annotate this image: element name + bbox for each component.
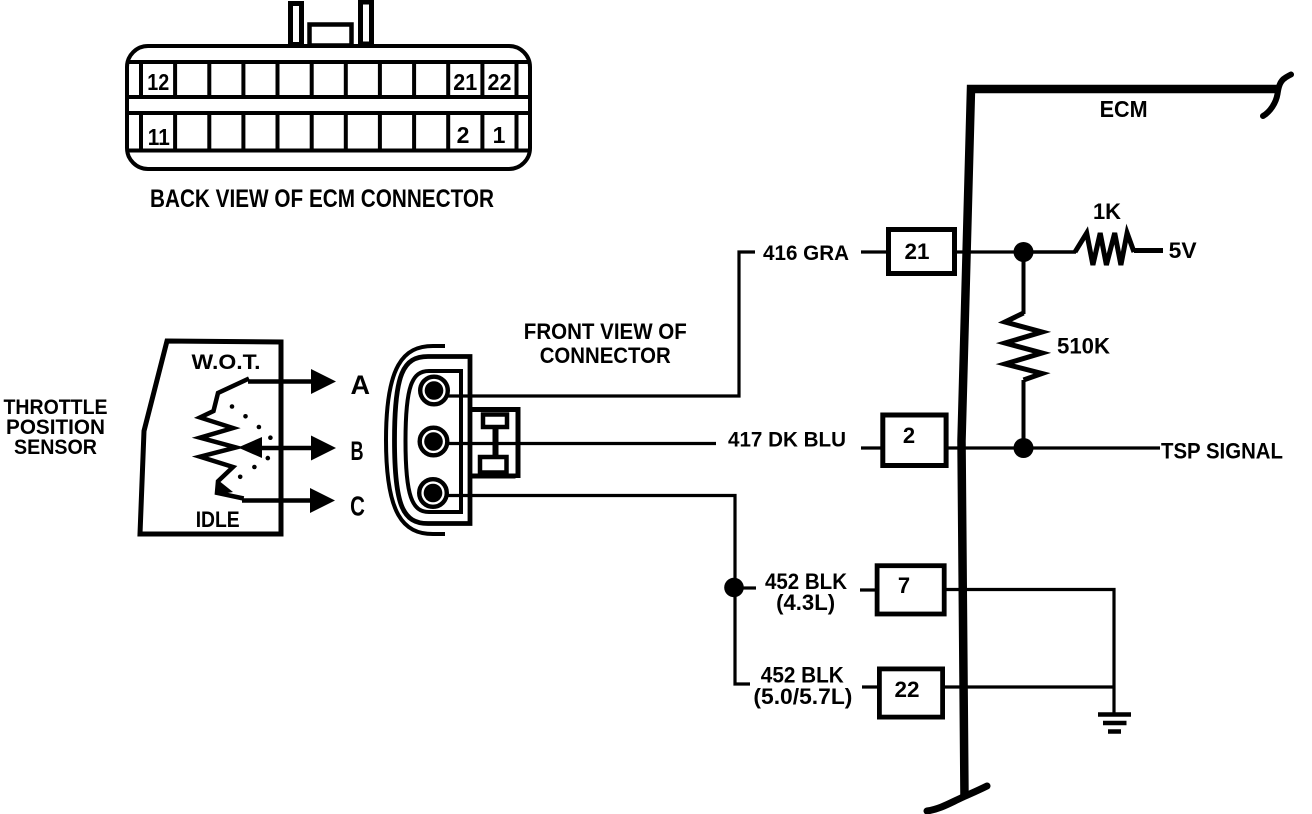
- ECM terminal box 22: [879, 669, 942, 717]
- wire terminal 7 to ground bus: [944, 590, 1114, 688]
- svg-text:W.O.T.: W.O.T.: [192, 351, 261, 374]
- break squiggle top right: [1263, 75, 1291, 117]
- connector front view inner face: [406, 371, 462, 512]
- wire 416 GRA to terminal 21: [861, 250, 888, 253]
- svg-text:SENSOR: SENSOR: [14, 436, 97, 459]
- svg-text:7: 7: [898, 573, 910, 598]
- svg-text:21: 21: [905, 239, 930, 264]
- svg-text:(4.3L): (4.3L): [776, 590, 835, 615]
- wiper arrow (to B): [238, 437, 262, 458]
- stipple dots on resistive track: [230, 404, 273, 479]
- terminal C arrow: [242, 498, 312, 503]
- svg-text:CONNECTOR: CONNECTOR: [540, 343, 671, 368]
- connector cavity pin B: [420, 428, 448, 456]
- ECM boundary line: [962, 89, 1278, 797]
- potentiometer end arrow (idle end): [216, 480, 233, 495]
- caption FRONT VIEW OF CONNECTOR: [524, 319, 687, 368]
- wire pin B to 417 DK BLU: [447, 442, 716, 445]
- svg-text:1K: 1K: [1093, 199, 1121, 224]
- svg-text:IDLE: IDLE: [196, 507, 240, 532]
- ECM connector bottom pin row grid: [129, 113, 528, 151]
- terminal A arrow: [248, 379, 313, 384]
- resistor 1K: [1075, 233, 1134, 265]
- svg-text:417 DK BLU: 417 DK BLU: [728, 428, 846, 452]
- svg-text:TSP SIGNAL: TSP SIGNAL: [1161, 439, 1283, 464]
- connector latch: [471, 407, 518, 478]
- wire node to resistor 510K: [1022, 256, 1026, 314]
- svg-text:B: B: [350, 435, 363, 466]
- svg-text:(5.0/5.7L): (5.0/5.7L): [753, 684, 852, 709]
- splice junction on 452 BLK: [724, 578, 744, 598]
- svg-text:A: A: [351, 370, 371, 400]
- connector front view body: [395, 357, 471, 524]
- ECM connector top pin row grid: [129, 62, 528, 97]
- junction node on TSP signal: [1014, 438, 1034, 458]
- svg-text:22: 22: [895, 677, 920, 702]
- svg-text:1: 1: [493, 122, 506, 148]
- svg-text:2: 2: [903, 423, 915, 448]
- potentiometer resistive element (TPS): [200, 379, 249, 499]
- wire ground stem: [1112, 687, 1115, 713]
- svg-text:5V: 5V: [1169, 238, 1197, 263]
- junction node at 5V divider top: [1014, 242, 1034, 262]
- ECM connector right locking tab: [361, 2, 372, 44]
- svg-text:2: 2: [457, 122, 470, 148]
- terminal B arrow: [260, 446, 313, 451]
- ground symbol: [1098, 715, 1131, 732]
- wire node to resistor 1K: [1032, 250, 1076, 254]
- svg-text:22: 22: [488, 69, 512, 95]
- wire 452 BLK to terminal 22: [862, 685, 880, 688]
- break squiggle bottom: [927, 786, 987, 811]
- connector front view outer shell arc: [386, 346, 445, 534]
- wire 452 BLK to terminal 7: [860, 588, 877, 591]
- resistor 510K: [1005, 313, 1042, 380]
- wire pin C down to splice: [446, 496, 750, 685]
- connector cavity pin C: [419, 479, 447, 507]
- svg-text:C: C: [350, 492, 365, 523]
- svg-text:416 GRA: 416 GRA: [763, 242, 849, 265]
- throttle position sensor body: [140, 341, 281, 534]
- svg-text:11: 11: [148, 124, 170, 150]
- wire resistor 1K to 5V: [1134, 248, 1163, 253]
- ECM connector center key bump: [310, 25, 352, 46]
- wire TSP SIGNAL: [946, 446, 1160, 449]
- wire terminal 21 to node: [957, 250, 1016, 253]
- svg-text:510K: 510K: [1057, 334, 1110, 359]
- ECM connector left locking tab: [291, 4, 302, 45]
- svg-text:21: 21: [453, 69, 477, 95]
- connector cavity pin A: [420, 377, 448, 405]
- wire resistor 510K to TSP signal node: [1022, 380, 1026, 440]
- ECM terminal box 2: [883, 415, 946, 466]
- wire 417 DK BLU to terminal 2: [861, 446, 883, 449]
- label THROTTLE POSITION SENSOR: [4, 396, 108, 459]
- ECM terminal box 7: [877, 566, 944, 614]
- ECM terminal box 21: [889, 230, 955, 274]
- svg-text:12: 12: [147, 69, 169, 95]
- ECM connector back view housing: [127, 46, 530, 169]
- wire splice tick to 452 BLK label: [743, 586, 756, 589]
- wire pin A to 416 GRA: [447, 252, 755, 396]
- svg-text:FRONT VIEW OF: FRONT VIEW OF: [524, 319, 687, 344]
- svg-text:BACK VIEW OF ECM CONNECTOR: BACK VIEW OF ECM CONNECTOR: [150, 185, 494, 213]
- svg-text:ECM: ECM: [1100, 96, 1148, 122]
- wire terminal 22 to ground: [943, 685, 1114, 688]
